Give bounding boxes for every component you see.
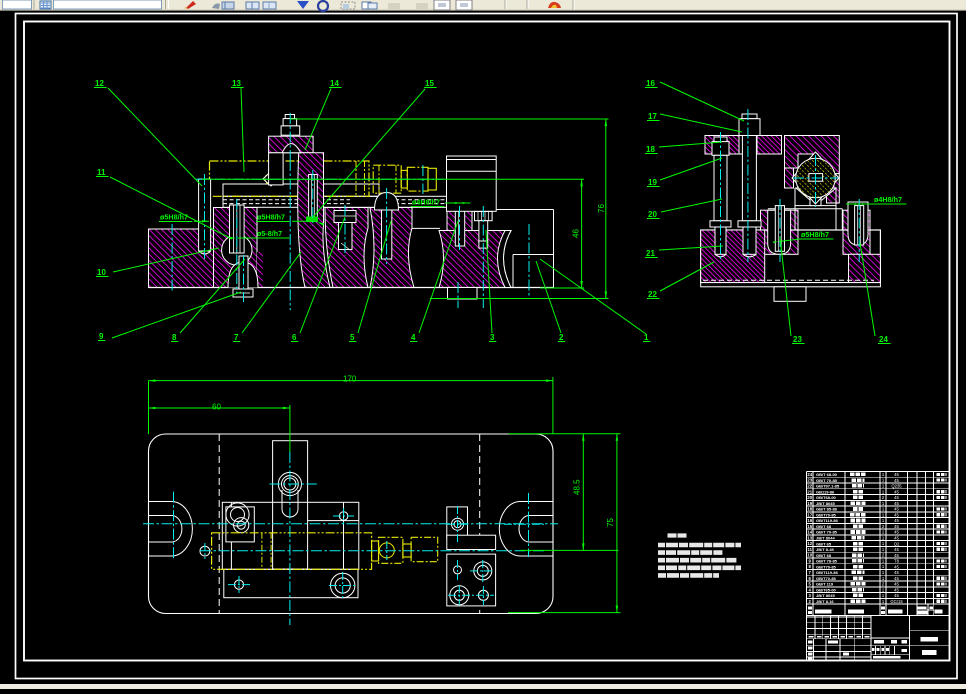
svg-text:2: 2 xyxy=(559,333,564,342)
svg-text:170: 170 xyxy=(343,374,357,383)
svg-text:24: 24 xyxy=(807,472,812,477)
svg-text:45: 45 xyxy=(894,535,899,540)
svg-text:17: 17 xyxy=(807,512,812,517)
svg-text:5: 5 xyxy=(350,333,355,342)
svg-text:14: 14 xyxy=(330,79,339,88)
svg-text:GB/T 68-00: GB/T 68-00 xyxy=(816,472,838,477)
svg-text:JB/T 8-45: JB/T 8-45 xyxy=(816,547,835,552)
svg-text:76: 76 xyxy=(597,204,606,213)
svg-text:60: 60 xyxy=(212,402,221,411)
svg-text:T8: T8 xyxy=(894,559,900,564)
svg-text:45: 45 xyxy=(894,472,899,477)
svg-text:12: 12 xyxy=(807,541,812,546)
svg-text:18: 18 xyxy=(807,507,812,512)
svg-text:8: 8 xyxy=(172,333,177,342)
svg-text:16: 16 xyxy=(646,79,655,88)
svg-text:10: 10 xyxy=(807,553,812,558)
svg-text:45: 45 xyxy=(894,489,899,494)
svg-text:23: 23 xyxy=(793,335,802,344)
svg-text:18: 18 xyxy=(646,145,655,154)
svg-text:GB/T 85-88: GB/T 85-88 xyxy=(816,507,838,512)
svg-text:21: 21 xyxy=(807,489,812,494)
svg-text:11: 11 xyxy=(97,168,106,177)
svg-text:14: 14 xyxy=(807,530,812,535)
svg-text:13: 13 xyxy=(807,535,812,540)
svg-text:15: 15 xyxy=(425,79,434,88)
svg-text:3: 3 xyxy=(490,333,495,342)
svg-text:10: 10 xyxy=(97,268,106,277)
svg-text:ø5-8/h7: ø5-8/h7 xyxy=(257,229,282,238)
svg-text:JB/T 8.16: JB/T 8.16 xyxy=(816,599,834,604)
svg-text:GB/T 119: GB/T 119 xyxy=(816,582,834,587)
svg-text:45: 45 xyxy=(894,478,899,483)
svg-text:Q235: Q235 xyxy=(891,484,902,489)
svg-text:GB/T70-85: GB/T70-85 xyxy=(816,564,837,569)
svg-text:16: 16 xyxy=(807,518,812,523)
svg-text:45: 45 xyxy=(894,587,899,592)
svg-text:45: 45 xyxy=(894,495,899,500)
svg-text:7: 7 xyxy=(234,333,239,342)
svg-text:20: 20 xyxy=(807,495,812,500)
svg-text:GB/T 70-85: GB/T 70-85 xyxy=(816,478,838,483)
svg-text:GB/T119-86: GB/T119-86 xyxy=(816,518,839,523)
svg-text:11: 11 xyxy=(807,547,812,552)
svg-text:ø5H8/h7: ø5H8/h7 xyxy=(257,213,285,222)
svg-text:ø4H8/h7: ø4H8/h7 xyxy=(412,198,440,207)
svg-text:21: 21 xyxy=(646,249,655,258)
svg-text:JB/T 8044: JB/T 8044 xyxy=(816,535,835,540)
svg-text:45: 45 xyxy=(894,512,899,517)
svg-text:45: 45 xyxy=(894,524,899,529)
svg-text:45: 45 xyxy=(894,547,899,552)
svg-text:45: 45 xyxy=(894,501,899,506)
svg-text:45: 45 xyxy=(894,564,899,569)
svg-text:23: 23 xyxy=(807,478,812,483)
svg-text:22: 22 xyxy=(807,484,812,489)
svg-text:GB/T 68: GB/T 68 xyxy=(816,524,832,529)
svg-text:9: 9 xyxy=(99,332,104,341)
svg-text:4: 4 xyxy=(411,333,416,342)
svg-text:JB/T 8045: JB/T 8045 xyxy=(816,501,835,506)
svg-text:20: 20 xyxy=(648,210,657,219)
svg-text:45: 45 xyxy=(894,530,899,535)
svg-text:1: 1 xyxy=(644,333,649,342)
svg-text:GB/T70-85: GB/T70-85 xyxy=(816,512,837,517)
svg-text:45: 45 xyxy=(894,553,899,558)
svg-text:ø4H8/h7: ø4H8/h7 xyxy=(874,195,902,204)
svg-text:45: 45 xyxy=(894,582,899,587)
svg-text:24: 24 xyxy=(879,335,888,344)
svg-text:GB/T97.1-85: GB/T97.1-85 xyxy=(816,484,840,489)
svg-text:48.5: 48.5 xyxy=(573,479,582,495)
svg-text:19: 19 xyxy=(648,178,657,187)
svg-text:GB/T65-00: GB/T65-00 xyxy=(816,587,837,592)
svg-text:19: 19 xyxy=(807,501,812,506)
svg-text:GB/T 68: GB/T 68 xyxy=(816,553,832,558)
svg-text:22: 22 xyxy=(648,290,657,299)
svg-text:GB/T68-00: GB/T68-00 xyxy=(816,495,837,500)
svg-text:45: 45 xyxy=(894,507,899,512)
svg-text:17: 17 xyxy=(648,112,657,121)
svg-text:45: 45 xyxy=(894,576,899,581)
svg-text:ø5H8/h7: ø5H8/h7 xyxy=(160,213,188,222)
svg-text:45: 45 xyxy=(894,518,899,523)
svg-text:46: 46 xyxy=(572,229,581,238)
svg-text:13: 13 xyxy=(232,79,241,88)
svg-text:GB/T119-86: GB/T119-86 xyxy=(816,570,839,575)
svg-text:12: 12 xyxy=(95,79,104,88)
svg-text:45: 45 xyxy=(894,593,899,598)
svg-text:15: 15 xyxy=(807,524,812,529)
svg-text:GB/T 70-85: GB/T 70-85 xyxy=(816,530,838,535)
svg-text:Q2: Q2 xyxy=(894,541,900,546)
svg-text:ø5H8/h7: ø5H8/h7 xyxy=(801,230,829,239)
svg-text:6: 6 xyxy=(292,333,297,342)
svg-text:75: 75 xyxy=(606,518,615,527)
svg-text:JB/T 8045: JB/T 8045 xyxy=(816,593,835,598)
svg-text:GCr15: GCr15 xyxy=(890,599,903,604)
svg-text:GB119-86: GB119-86 xyxy=(816,489,835,494)
svg-text:45: 45 xyxy=(894,570,899,575)
svg-text:GB/T 65: GB/T 65 xyxy=(816,541,832,546)
svg-text:GB/T 78-85: GB/T 78-85 xyxy=(816,559,838,564)
svg-text:GB/T70-85: GB/T70-85 xyxy=(816,576,837,581)
